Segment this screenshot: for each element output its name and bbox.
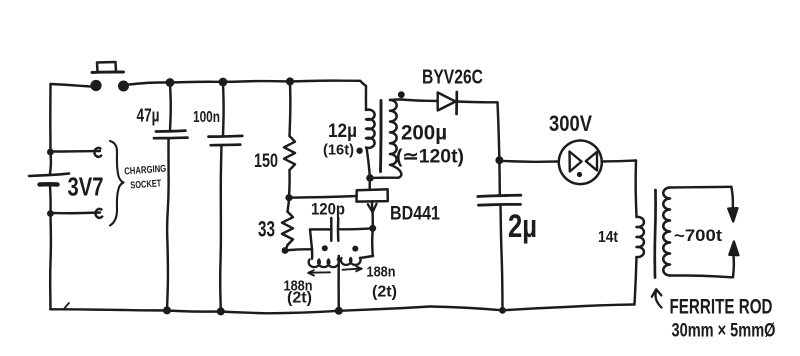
- svg-text:30mm × 5mmØ: 30mm × 5mmØ: [672, 321, 776, 342]
- svg-text:FERRITE ROD: FERRITE ROD: [670, 296, 773, 319]
- svg-text:(2t): (2t): [372, 284, 397, 301]
- svg-text:BD441: BD441: [390, 204, 440, 225]
- svg-text:33: 33: [258, 217, 275, 242]
- svg-text:SOCKET: SOCKET: [130, 178, 162, 191]
- svg-text:100n: 100n: [193, 109, 220, 126]
- svg-text:(2t): (2t): [287, 290, 312, 307]
- svg-text:14t: 14t: [598, 229, 619, 246]
- svg-text:CHARGING: CHARGING: [124, 164, 167, 178]
- svg-text:BYV26C: BYV26C: [422, 67, 483, 89]
- svg-text:150: 150: [254, 151, 278, 172]
- svg-text:~700t: ~700t: [674, 226, 722, 245]
- svg-text:47µ: 47µ: [137, 106, 160, 126]
- svg-text:188n: 188n: [367, 264, 396, 281]
- svg-text:300V: 300V: [549, 111, 592, 136]
- svg-text:3V7: 3V7: [68, 172, 104, 202]
- svg-text:120p: 120p: [311, 200, 345, 219]
- svg-text:200µ: 200µ: [401, 122, 447, 145]
- svg-text:2µ: 2µ: [508, 208, 537, 244]
- svg-text:12µ: 12µ: [328, 121, 357, 142]
- svg-text:(≃120t): (≃120t): [396, 147, 464, 168]
- svg-text:(16t): (16t): [323, 142, 354, 159]
